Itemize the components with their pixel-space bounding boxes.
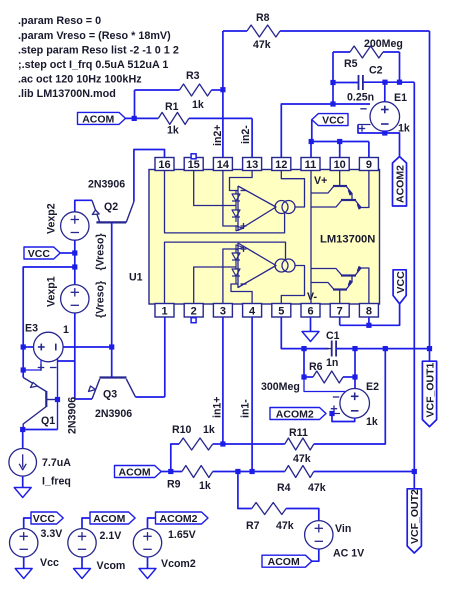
svg-text:R7: R7 bbox=[246, 520, 260, 532]
svg-text:47k: 47k bbox=[253, 39, 271, 51]
transistor Q2 2N3906 bbox=[96, 221, 126, 223]
svg-text:C1: C1 bbox=[326, 330, 340, 342]
svg-text:R9: R9 bbox=[167, 479, 181, 491]
svg-text:I_freq: I_freq bbox=[42, 476, 71, 488]
node Q1 collector bbox=[20, 427, 25, 432]
wire left rail to E3 bbox=[23, 267, 75, 378]
svg-text:VCC: VCC bbox=[322, 115, 345, 127]
flag VCC (Vexp) bbox=[24, 247, 60, 259]
svg-text:11: 11 bbox=[305, 159, 317, 171]
wire R7 to Vin bbox=[286, 509, 319, 521]
svg-text:U1: U1 bbox=[129, 272, 143, 284]
transistor buffer pair top (pins 10/9) bbox=[339, 170, 341, 186]
svg-text:Vcc: Vcc bbox=[40, 557, 59, 569]
svg-text:AC 1V: AC 1V bbox=[333, 548, 364, 560]
svg-text:5: 5 bbox=[278, 306, 284, 318]
svg-text:1k: 1k bbox=[366, 416, 378, 428]
svg-text:2.1V: 2.1V bbox=[100, 530, 122, 542]
transistor Q1 2N3906 bbox=[45, 391, 47, 407]
node in1- bbox=[250, 469, 255, 474]
wire R9 to R4 bbox=[213, 471, 285, 473]
svg-text:1: 1 bbox=[161, 306, 167, 318]
svg-text:R8: R8 bbox=[256, 12, 270, 24]
voltage source Vcom bbox=[90, 512, 135, 524]
flag VCC (V+ rail) bbox=[312, 114, 348, 126]
flag ACOM2 (E1) bbox=[393, 157, 407, 207]
node E2 riser bbox=[352, 346, 357, 351]
svg-text:ACOM: ACOM bbox=[268, 556, 300, 568]
NC marker pin 2 bbox=[191, 318, 196, 323]
wire E1 top bbox=[384, 82, 386, 102]
node pin10 bbox=[337, 139, 342, 144]
svg-text:Vexp2: Vexp2 bbox=[46, 203, 58, 234]
svg-text:in1-: in1- bbox=[240, 399, 252, 418]
svg-text:R11: R11 bbox=[289, 427, 308, 439]
NC marker pin 15 bbox=[191, 154, 196, 159]
IC internal supply rail bbox=[310, 170, 312, 305]
capacitor C2 bbox=[358, 75, 360, 90]
wire ACOM to R9 bbox=[161, 471, 182, 473]
wire R4 right bbox=[314, 471, 415, 473]
svg-text:4: 4 bbox=[249, 306, 256, 318]
E3 control plus bbox=[23, 360, 41, 370]
OTA1 output wire bbox=[281, 266, 304, 304]
svg-text:47k: 47k bbox=[308, 482, 326, 494]
svg-text:14: 14 bbox=[217, 159, 230, 171]
capacitor C1 bbox=[331, 341, 333, 357]
OTA1 input wires bbox=[223, 249, 238, 304]
svg-text:E3: E3 bbox=[25, 323, 38, 335]
svg-text:6: 6 bbox=[307, 306, 313, 318]
flag ACOM2 (E2) bbox=[270, 408, 326, 420]
ground pin 6 bbox=[310, 317, 312, 332]
node R7 drop bbox=[235, 469, 240, 474]
svg-text:ACOM: ACOM bbox=[82, 113, 114, 125]
svg-text:ACOM: ACOM bbox=[93, 513, 125, 525]
svg-text:1k: 1k bbox=[199, 480, 211, 492]
wire R5 right drop bbox=[383, 51, 400, 53]
wire in2+ rail bbox=[222, 31, 224, 158]
node R10/in1+ bbox=[220, 441, 225, 446]
transistor Q3 2N3906 bbox=[100, 376, 127, 378]
flag VCF_OUT1 bbox=[422, 361, 436, 426]
wire C2 right / top node bbox=[363, 81, 414, 83]
node R3/R8 junction bbox=[220, 87, 225, 92]
svg-text:R1: R1 bbox=[165, 101, 179, 113]
wire VCF_OUT1 bbox=[429, 349, 431, 362]
svg-text:V+: V+ bbox=[314, 175, 327, 187]
svg-text:16: 16 bbox=[158, 159, 170, 171]
svg-text:13: 13 bbox=[246, 159, 258, 171]
controlled source E3 bbox=[34, 332, 64, 362]
resistor R11 bbox=[285, 438, 314, 450]
wire R3 left bbox=[135, 89, 180, 91]
svg-text:2N3906: 2N3906 bbox=[88, 179, 125, 191]
resistor R7 bbox=[252, 503, 286, 515]
svg-text:12: 12 bbox=[275, 159, 287, 171]
op-amp OTA1 (bottom) bbox=[238, 243, 276, 288]
svg-text:1: 1 bbox=[63, 324, 69, 336]
svg-text:VCC: VCC bbox=[28, 248, 51, 260]
resistor R3 bbox=[180, 84, 212, 96]
svg-text:R5: R5 bbox=[344, 58, 358, 70]
svg-text:R4: R4 bbox=[277, 482, 291, 494]
svg-text:Vcom: Vcom bbox=[97, 560, 126, 572]
OTA2 input wires bbox=[230, 170, 253, 190]
node R5 right bbox=[397, 80, 402, 85]
wire in1+ rail bbox=[222, 317, 224, 444]
wire E3 out right to Q2/Q3 base bbox=[63, 346, 112, 348]
resistor R6 bbox=[303, 349, 305, 377]
wire E2 bottom loop bbox=[332, 414, 355, 422]
voltage source Vexp1 bbox=[61, 285, 89, 313]
wire Vexp2 to Q2 emitter bbox=[75, 200, 92, 212]
node E2 plus ctrl bbox=[329, 411, 334, 416]
svg-text:1k: 1k bbox=[192, 99, 204, 111]
svg-text:C2: C2 bbox=[369, 65, 383, 77]
svg-text:.param Vreso = (Reso * 18mV): .param Vreso = (Reso * 18mV) bbox=[18, 30, 171, 42]
svg-text:1k: 1k bbox=[167, 125, 179, 137]
svg-text:R3: R3 bbox=[186, 70, 200, 82]
svg-text:Q3: Q3 bbox=[103, 389, 117, 401]
wire R1 to pin13 in2- bbox=[189, 117, 252, 119]
wire ACOM to R1 bbox=[126, 117, 159, 119]
wire E3 minus to Vexp1 rail bbox=[58, 360, 75, 362]
svg-text:2: 2 bbox=[191, 306, 197, 318]
node E3 ctrl plus bbox=[21, 367, 26, 372]
E2 control plus bbox=[332, 413, 340, 415]
node VCF_OUT1 bbox=[427, 346, 432, 351]
resistor R4 bbox=[285, 466, 314, 478]
node R4/VCF_OUT2 bbox=[412, 469, 417, 474]
IC U1 LM13700N body bbox=[149, 170, 380, 305]
node R6 left bbox=[301, 374, 306, 379]
svg-text:V-: V- bbox=[307, 291, 317, 303]
node C1 left drop bbox=[301, 346, 306, 351]
svg-text:ACOM2: ACOM2 bbox=[160, 513, 198, 525]
node E3 right / base rail bbox=[109, 344, 114, 349]
svg-text:VCF_OUT1: VCF_OUT1 bbox=[424, 362, 436, 417]
voltage source Vcc bbox=[31, 512, 63, 524]
IC pin boxes bottom row bbox=[155, 304, 174, 318]
OTA2 diodes bbox=[232, 194, 240, 201]
svg-text:R6: R6 bbox=[309, 361, 323, 373]
current source I_freq bbox=[9, 449, 37, 477]
node E3 out left bbox=[21, 344, 26, 349]
wire E1 bottom to ACOM2 bbox=[384, 131, 386, 133]
wire VCF_OUT2 bbox=[413, 472, 415, 489]
svg-text:.step param Reso list -2 -1 0: .step param Reso list -2 -1 0 1 2 bbox=[18, 44, 179, 56]
svg-text:ACOM2: ACOM2 bbox=[276, 409, 314, 421]
flag ACOM (R1) bbox=[78, 112, 126, 124]
svg-text:{Vreso}: {Vreso} bbox=[95, 233, 107, 270]
wire Vin bottom bbox=[312, 549, 319, 561]
node pin12 riser bbox=[330, 101, 335, 106]
flag ACOM (Vin) bbox=[262, 555, 312, 567]
svg-text:7: 7 bbox=[337, 306, 343, 318]
wire R11 right bbox=[314, 349, 386, 444]
node ACOM/R1/R3 bbox=[132, 116, 137, 121]
node R6 right bbox=[352, 374, 357, 379]
svg-text:1n: 1n bbox=[326, 357, 338, 369]
svg-text:in2+: in2+ bbox=[212, 125, 224, 147]
svg-text:in2-: in2- bbox=[240, 125, 252, 144]
wire VCF_OUT2 rail upper bbox=[413, 82, 415, 472]
svg-text:15: 15 bbox=[188, 159, 200, 171]
svg-text:VCC: VCC bbox=[395, 271, 407, 294]
svg-text:7.7uA: 7.7uA bbox=[42, 457, 71, 469]
wire Vexp2 bottom / Vexp1 top bbox=[74, 240, 76, 284]
wire pin12 out2 to C2 node and E1 ctrl bbox=[281, 104, 370, 158]
svg-text:{Vreso}: {Vreso} bbox=[95, 281, 107, 318]
wire Vexp1 bottom rail bbox=[74, 313, 76, 399]
ground I_freq bbox=[22, 476, 24, 488]
op-amp OTA2 (top) bbox=[238, 186, 276, 231]
svg-text:10: 10 bbox=[334, 159, 346, 171]
svg-text:47k: 47k bbox=[293, 453, 311, 465]
resistor R1 bbox=[158, 112, 189, 124]
svg-text:1.65V: 1.65V bbox=[168, 529, 196, 541]
svg-text:.param Reso = 0: .param Reso = 0 bbox=[18, 15, 101, 27]
svg-text:0.25n: 0.25n bbox=[347, 92, 374, 104]
resistor R5 bbox=[350, 46, 383, 58]
wire R5 left drop bbox=[333, 51, 350, 53]
voltage source Vin bbox=[305, 521, 333, 549]
node ACOM/R9/R10 bbox=[168, 469, 173, 474]
wire R7 drop bbox=[238, 472, 252, 509]
svg-text:R10: R10 bbox=[172, 424, 192, 436]
svg-text:.lib LM13700N.mod: .lib LM13700N.mod bbox=[18, 88, 116, 100]
resistor R10 bbox=[171, 444, 179, 472]
IC pin boxes top row bbox=[155, 158, 174, 171]
svg-text:LM13700N: LM13700N bbox=[320, 234, 375, 246]
resistor R9 bbox=[182, 466, 213, 478]
svg-text:VCC: VCC bbox=[33, 513, 56, 525]
svg-text:Vcom2: Vcom2 bbox=[161, 558, 196, 570]
node E1 out+ bbox=[382, 80, 387, 85]
svg-text:9: 9 bbox=[366, 159, 372, 171]
wire R8 right to VCF_OUT1 rail bbox=[280, 30, 430, 32]
voltage source Vcom2 bbox=[156, 512, 209, 524]
svg-text:3.3V: 3.3V bbox=[41, 528, 63, 540]
flag ACOM (R9) bbox=[115, 466, 162, 478]
flag VCC (pins 7/8) bbox=[393, 270, 406, 304]
node left rail tee bbox=[72, 264, 77, 269]
wire in1- rail bbox=[251, 317, 253, 472]
voltage source Vexp2 bbox=[61, 212, 89, 240]
controlled source E2 bbox=[354, 349, 356, 389]
node VCC/pin11 bbox=[309, 139, 314, 144]
wire pin16 to Q2 collector bbox=[134, 150, 165, 202]
svg-text:ACOM: ACOM bbox=[119, 467, 151, 479]
ground Vcom2 bbox=[139, 569, 156, 579]
ground Vcom bbox=[74, 569, 91, 579]
node E1 bottom bbox=[382, 130, 387, 135]
node C2/pin12/R5 bbox=[330, 80, 335, 85]
wire C1 right / out1 node bbox=[336, 348, 429, 350]
transistor buffer pair bottom (pins 7/8) bbox=[339, 290, 341, 304]
resistor R8 bbox=[247, 25, 280, 37]
svg-text:E1: E1 bbox=[394, 92, 407, 104]
wire pins 7,8 to VCC bbox=[339, 317, 341, 325]
ground Vcc bbox=[15, 569, 32, 579]
svg-text:2N3906: 2N3906 bbox=[95, 408, 132, 420]
wire C2 left bbox=[333, 82, 359, 84]
E1 control plus pin bbox=[358, 124, 371, 126]
svg-text:8: 8 bbox=[366, 306, 372, 318]
svg-text:1k: 1k bbox=[203, 424, 215, 436]
svg-text:ACOM2: ACOM2 bbox=[395, 165, 407, 203]
wire E3 out left bbox=[23, 346, 33, 348]
svg-text:47k: 47k bbox=[276, 520, 294, 532]
svg-text:.ac oct 120 10Hz 100kHz: .ac oct 120 10Hz 100kHz bbox=[18, 74, 142, 86]
wire Q1 collector to I_freq bbox=[23, 429, 58, 431]
OTA1 diodes bbox=[232, 253, 240, 260]
wire V+ pins 11,10,9 bbox=[311, 141, 369, 143]
E2 control minus bbox=[304, 377, 345, 392]
wire R8 left to in2+ rail bbox=[223, 30, 247, 32]
wire R10 to R11 bbox=[223, 443, 285, 445]
wire VCC to pin11 bbox=[311, 120, 313, 142]
node Q1 base bbox=[55, 397, 60, 402]
flag VCF_OUT2 bbox=[407, 489, 421, 553]
svg-text:Q2: Q2 bbox=[104, 201, 118, 213]
svg-text:300Meg: 300Meg bbox=[261, 381, 300, 393]
svg-text:;.step oct I_frq 0.5uA 512uA 1: ;.step oct I_frq 0.5uA 512uA 1 bbox=[18, 59, 168, 71]
svg-text:in1+: in1+ bbox=[212, 397, 224, 419]
svg-text:VCF_OUT2: VCF_OUT2 bbox=[409, 489, 421, 544]
wire pin5 riser bbox=[281, 317, 328, 349]
svg-text:Vexp1: Vexp1 bbox=[46, 276, 58, 307]
wire R3 right bbox=[212, 89, 223, 91]
op-amp buffer source E1 bbox=[370, 102, 400, 132]
wire E1 plus-control loop bbox=[358, 125, 385, 134]
svg-text:200Meg: 200Meg bbox=[364, 38, 403, 50]
svg-text:Vin: Vin bbox=[335, 523, 351, 535]
E1 control minus pin bbox=[360, 108, 366, 110]
OTA2 output wire bbox=[281, 170, 304, 207]
E3 control minus rail bbox=[57, 359, 59, 430]
node pin8 bbox=[366, 323, 371, 328]
svg-text:3: 3 bbox=[220, 306, 226, 318]
node R11 rail bbox=[383, 346, 388, 351]
svg-text:E2: E2 bbox=[366, 381, 379, 393]
svg-text:2N3906: 2N3906 bbox=[67, 397, 79, 434]
node VCC/Vexp bbox=[72, 250, 77, 255]
svg-text:Q1: Q1 bbox=[41, 415, 55, 427]
